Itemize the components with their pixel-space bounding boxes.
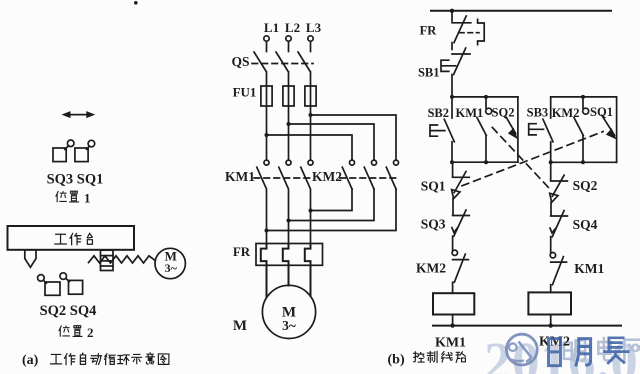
limit switch SQ3 NC (452, 210, 469, 250)
coil KM2 (528, 292, 571, 327)
svg-text:FR: FR (233, 244, 251, 259)
node after rail junction (450, 9, 454, 13)
self-hold contact KM1 aux NO (477, 97, 492, 162)
svg-text:KM2: KM2 (539, 335, 570, 350)
branch wire phase3 to KM2 (309, 113, 397, 160)
watermark light digits 2016.05 (484, 331, 640, 374)
motor M 3~ (mechanism) (155, 248, 185, 278)
self-hold contact KM2 aux NO (574, 97, 589, 162)
svg-text:SQ4: SQ4 (573, 217, 598, 232)
watermark chars 日月長 (549, 338, 628, 366)
top supply rail (431, 10, 611, 12)
switch QS pole 1 (254, 41, 267, 86)
coil KM1 (433, 293, 474, 328)
svg-text:KM2: KM2 (552, 106, 580, 120)
mechanical linkage dashed SQ1 (462, 132, 603, 186)
wire phase3 down to KM1 (310, 115, 312, 160)
stop button SB1 NC (441, 48, 470, 97)
svg-text:SQ1: SQ1 (421, 179, 446, 194)
limit switch SQ4 symbol (60, 273, 83, 294)
svg-text:KM1: KM1 (574, 261, 604, 276)
watermark light chars 明电网 (564, 338, 640, 362)
label 位置1 (56, 190, 91, 205)
node L1 (264, 20, 279, 41)
svg-text:(b): (b) (388, 353, 405, 368)
FR heater element phase2 (283, 244, 289, 286)
contactor KM1 pole 1 (257, 160, 269, 244)
contactor KM2 pole 1 (342, 160, 354, 189)
limit switch SQ3 symbol (53, 140, 74, 162)
svg-text:KM2: KM2 (416, 261, 446, 276)
limit switch contact SQ2 NO (506, 97, 518, 162)
branch wire phase2 to KM2 (287, 122, 375, 160)
node L2 (285, 20, 300, 41)
worktable 工作台 (8, 226, 135, 250)
svg-text:KM2: KM2 (312, 169, 342, 184)
caption (a) 工作自动循环示意图 (22, 353, 169, 368)
svg-text:FR: FR (420, 24, 438, 38)
svg-text:L1: L1 (264, 20, 279, 35)
limit switch SQ2 NC (right chain) (550, 162, 568, 215)
svg-text:SQ2: SQ2 (573, 178, 598, 193)
limit switch SQ2 symbol (38, 275, 60, 296)
limit switch SQ4 NC (550, 211, 567, 253)
motor M 3~ (262, 285, 315, 338)
interlock contact KM1 NC (550, 253, 566, 293)
label 位置2 (59, 325, 93, 340)
svg-text:SQ2: SQ2 (492, 106, 515, 120)
mechanical linkage dashed SQ2 (492, 127, 549, 188)
svg-text:M: M (233, 318, 247, 334)
left branch box frame (450, 95, 518, 164)
svg-text:FU1: FU1 (233, 85, 257, 100)
switch QS pole 2 (276, 41, 289, 86)
table dog pointer (25, 250, 36, 267)
node L3 (306, 20, 322, 41)
svg-text:QS: QS (231, 54, 249, 69)
crossover wire KM2 pole2 to phase2 node (287, 189, 375, 223)
contactor KM2 pole 3 (386, 160, 398, 189)
double arrow travel direction (62, 111, 96, 118)
wire phase1 down to KM1 (266, 135, 268, 160)
start button SB3 NO (529, 97, 553, 162)
fuse FU1 phase2 (283, 86, 294, 124)
svg-text:SB3: SB3 (527, 106, 549, 120)
contactor KM2 pole 2 (364, 160, 376, 189)
thermal relay FR NC contact (452, 11, 484, 50)
start button SB2 NO (430, 97, 454, 162)
svg-text:3~: 3~ (165, 261, 178, 275)
svg-text:SQ1: SQ1 (590, 105, 613, 119)
lead screw zigzag (89, 256, 156, 263)
svg-text:3~: 3~ (282, 318, 296, 333)
contactor KM1 pole 3 (301, 160, 313, 244)
screw nut (101, 250, 114, 270)
limit switch SQ1 NC (left chain) (452, 162, 470, 215)
QS linkage dashed (252, 63, 313, 65)
crossover wire KM2 pole1 to phase3 node (309, 189, 353, 213)
limit switch contact SQ1 NO (602, 97, 617, 162)
interlock contact KM2 NC (452, 250, 468, 293)
contactor KM1 pole 2 (279, 160, 291, 244)
right branch box frame (549, 95, 617, 164)
svg-text:SB1: SB1 (418, 66, 440, 80)
FR heater element phase3 (305, 244, 311, 296)
svg-text:KM1: KM1 (456, 106, 484, 120)
svg-text:L3: L3 (306, 20, 322, 35)
bottom supply rail (433, 325, 621, 327)
svg-text:(a): (a) (22, 353, 39, 368)
watermark logo circle (506, 334, 537, 365)
svg-text:SQ2 SQ4: SQ2 SQ4 (40, 303, 97, 319)
svg-text:SB2: SB2 (427, 106, 449, 120)
wire phase2 down to KM1 (288, 124, 290, 160)
crossover wire KM2 pole3 to phase1 node (265, 189, 397, 233)
KM2 linkage dashed (340, 177, 399, 179)
svg-text:SQ3: SQ3 (421, 217, 446, 232)
svg-text:KM1: KM1 (225, 169, 255, 184)
switch QS pole 3 (298, 41, 311, 86)
FR heater element phase1 (261, 244, 267, 297)
svg-text:KM1: KM1 (435, 336, 466, 351)
KM1 linkage dashed (254, 177, 314, 179)
svg-text:SQ3 SQ1: SQ3 SQ1 (47, 172, 104, 188)
svg-text:2: 2 (87, 325, 94, 340)
stray dot top (134, 1, 138, 5)
fuse FU1 phase1 (261, 86, 272, 135)
fuse FU1 phase3 (305, 86, 316, 115)
branch wire phase1 to KM2 (265, 133, 353, 160)
limit switch SQ1 symbol (75, 140, 95, 161)
thermal relay FR heater box (256, 244, 323, 266)
caption (b) 控制线路 (388, 351, 466, 367)
svg-text:1: 1 (84, 190, 91, 205)
svg-text:L2: L2 (285, 20, 300, 35)
